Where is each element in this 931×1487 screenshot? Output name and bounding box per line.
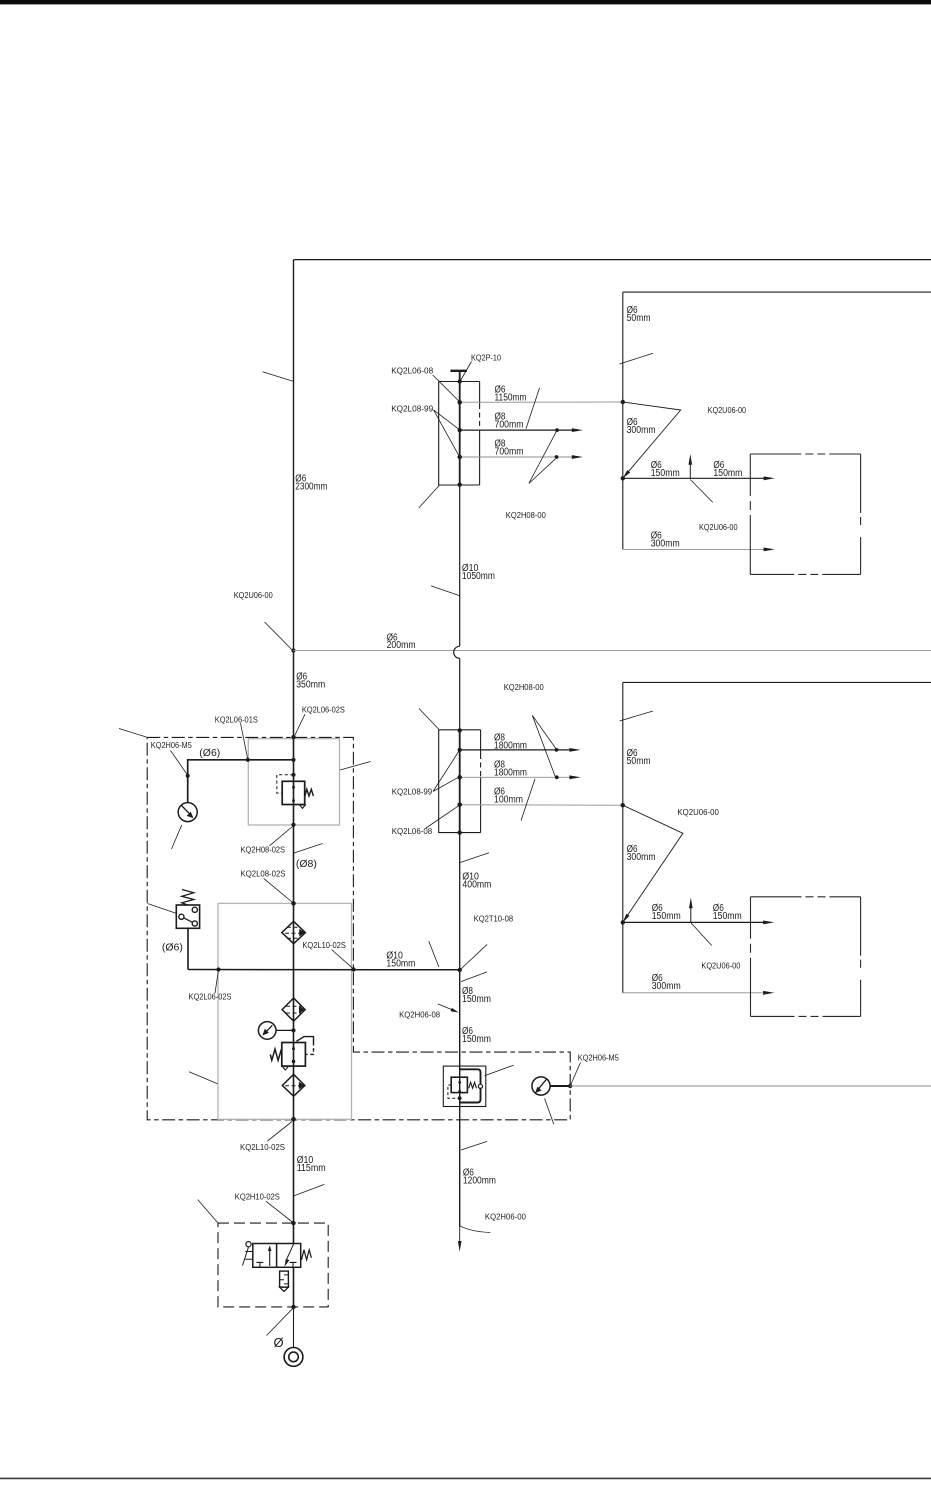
svg-text:KQ2L08-02S: KQ2L08-02S bbox=[241, 869, 286, 879]
SV1 solenoid symbol bbox=[243, 1242, 253, 1266]
leader triangle KQ2U06-00 (Z2R) bbox=[623, 805, 683, 919]
label Ø6 200mm bbox=[387, 632, 416, 651]
label Ø6 350mm bbox=[296, 672, 325, 691]
label Ø6 100mm bbox=[494, 787, 523, 806]
label Ø6 300mm lower (Z2R) bbox=[652, 973, 681, 992]
regulator R2 spring (left W) bbox=[270, 1049, 281, 1060]
wire: gauge G3 link (thick) bbox=[550, 1085, 570, 1087]
zone 1 top boundary line bbox=[294, 259, 931, 261]
page bottom rule bbox=[0, 1477, 931, 1479]
node: junction left pipe / 200mm line bbox=[291, 648, 295, 652]
svg-text:1150mm: 1150mm bbox=[495, 392, 527, 403]
node dots on manifold U1 bbox=[458, 379, 462, 383]
label Ø6 300mm lower (Z1R) bbox=[651, 531, 680, 550]
regulator R2 relief triangle bbox=[283, 1067, 289, 1071]
label Ø8 1800mm #1 bbox=[494, 732, 527, 751]
leaders KQ2L08-99 bbox=[434, 410, 460, 457]
wire: stem to gauge G1 bbox=[187, 776, 189, 803]
svg-text:150mm: 150mm bbox=[652, 911, 681, 922]
wire: main riser through manifold U1 bbox=[459, 371, 461, 485]
regulator R1 spring (right) bbox=[305, 789, 314, 796]
regulator R1 relief triangle bbox=[300, 805, 306, 809]
wire: drop pipe Ø10 115mm bbox=[293, 1119, 295, 1223]
regulator R2 flow arrow + dot bbox=[292, 1044, 295, 1050]
svg-text:KQ2L06-08: KQ2L06-08 bbox=[391, 366, 433, 376]
label Ø6 300mm (Z1R) bbox=[627, 417, 656, 436]
label Ø6 2300mm bbox=[295, 473, 327, 492]
wire: outlet Ø8 1800mm #2 with arrow (gray) bbox=[460, 776, 570, 778]
svg-text:KQ2U06-00: KQ2U06-00 bbox=[234, 590, 273, 600]
label Ø6 150mm (riser) bbox=[462, 1026, 491, 1045]
svg-text:KQ2U06-00: KQ2U06-00 bbox=[677, 807, 719, 817]
leader KQ2L06-01S bbox=[241, 723, 248, 759]
valve KQ2H06-M5 outer square bbox=[443, 1066, 486, 1106]
svg-text:(Ø8): (Ø8) bbox=[296, 859, 317, 870]
SV1 left position: flow arrow bbox=[269, 1249, 271, 1267]
label Ø10 400mm bbox=[462, 871, 491, 890]
svg-text:KQ2H08-00: KQ2H08-00 bbox=[504, 682, 544, 692]
svg-text:150mm: 150mm bbox=[651, 468, 680, 479]
pressure gauge G2 bbox=[258, 1022, 293, 1040]
svg-text:400mm: 400mm bbox=[462, 879, 491, 890]
wire: riser Ø10 1050mm bbox=[459, 485, 461, 646]
leader KQ2H06-00 bbox=[460, 1226, 490, 1233]
svg-text:KQ2H06-00: KQ2H06-00 bbox=[485, 1211, 526, 1221]
filter F1 (air filter) bbox=[282, 921, 306, 943]
leader Ø10 1050mm bbox=[431, 586, 460, 596]
svg-text:KQ2H06-M5: KQ2H06-M5 bbox=[151, 740, 192, 750]
pressure gauge G3 bbox=[532, 1077, 550, 1095]
leader across Z1R edge bbox=[620, 353, 654, 364]
filter F3 (micro mist separator) bbox=[282, 1074, 305, 1096]
gray subgroup box 1 (regulator unit) bbox=[248, 739, 339, 825]
regulator R1 body bbox=[282, 781, 305, 804]
node: tee junction bbox=[458, 968, 462, 972]
leader KQ2H06-M5 bbox=[170, 750, 187, 775]
svg-text:300mm: 300mm bbox=[651, 538, 680, 549]
leader at (Ø8) bbox=[294, 844, 323, 854]
wire: outlet Ø8 700mm #2 with arrow bbox=[460, 456, 573, 458]
wire: pipe Ø6 350mm (left vertical lower) bbox=[293, 651, 295, 738]
valve port circle bbox=[478, 1084, 482, 1088]
wire: riser Ø10 400mm bbox=[459, 833, 461, 970]
valve bypass loop (thick) bbox=[460, 1069, 481, 1102]
svg-text:200mm: 200mm bbox=[387, 640, 416, 651]
gray subgroup box 2 (filter unit) bbox=[218, 903, 352, 1119]
label Ø10 115mm bbox=[297, 1155, 326, 1174]
label Ø10 1050mm bbox=[462, 563, 495, 582]
leader to manifold U2 top corner bbox=[419, 709, 439, 730]
svg-text:700mm: 700mm bbox=[495, 446, 524, 457]
phantom box Z2R (equipment outline) bbox=[751, 897, 861, 1017]
leader to enclosure corner bbox=[119, 729, 147, 738]
svg-text:100mm: 100mm bbox=[494, 795, 523, 806]
leader KQ2P-10 bbox=[461, 362, 472, 381]
leader to valve enclosure corner bbox=[198, 1200, 218, 1223]
V leaders to outlet arrows bbox=[529, 430, 557, 483]
svg-text:150mm: 150mm bbox=[462, 994, 491, 1005]
node dots on manifold U2 bbox=[458, 728, 462, 732]
wire: gauge branch L-line thick bbox=[188, 760, 294, 776]
leaders at tee junction bbox=[429, 941, 487, 1010]
leader Ø10 115mm bbox=[294, 1184, 325, 1196]
svg-text:1050mm: 1050mm bbox=[462, 571, 495, 582]
svg-text:300mm: 300mm bbox=[627, 852, 656, 863]
label Ø6 300mm (Z2R) bbox=[627, 844, 656, 863]
up arrow on Z2R branch 1 bbox=[690, 903, 692, 923]
zone2 right distribution box left edge bbox=[622, 682, 624, 992]
leader KQ2L10-02S bottom bbox=[268, 1122, 293, 1142]
svg-text:300mm: 300mm bbox=[627, 425, 656, 436]
pipe hop over 200mm line bbox=[454, 646, 460, 658]
label Ø6 150mm left (Z2R) bbox=[652, 903, 681, 922]
svg-text:2300mm: 2300mm bbox=[295, 481, 327, 492]
wire: Ø10 150mm horizontal run bbox=[188, 969, 460, 971]
wire: outlet Ø6 1150mm (gray) bbox=[460, 401, 623, 403]
leaders KQ2L08-99 (zone2) bbox=[433, 751, 459, 792]
wire: Z2R branch arrow line 2 (gray) bbox=[623, 992, 764, 994]
svg-text:350mm: 350mm bbox=[296, 680, 325, 691]
leader KQ2H10-02S bbox=[266, 1201, 293, 1222]
node: Z2R inlet junction bbox=[621, 803, 625, 807]
leader KQ2L06-02S mid bbox=[215, 971, 218, 994]
SV1 return spring W bbox=[302, 1250, 312, 1260]
wire: FRL main vertical bbox=[293, 737, 295, 1119]
node: enclosure bottom junction bbox=[291, 1305, 295, 1309]
wire: out of valve bbox=[293, 1267, 295, 1307]
node: FRL inlet dot bbox=[291, 735, 295, 739]
svg-text:KQ2H06-M5: KQ2H06-M5 bbox=[578, 1053, 619, 1063]
svg-text:KQ2H08-02S: KQ2H08-02S bbox=[241, 844, 286, 854]
wire: Z1R branch arrow line 1 bbox=[623, 477, 764, 479]
svg-text:KQ2H06-08: KQ2H06-08 bbox=[399, 1010, 440, 1020]
leader Ø10 400mm bbox=[460, 853, 489, 863]
svg-text:KQ2L10-02S: KQ2L10-02S bbox=[302, 940, 346, 950]
wire: switch stem bbox=[187, 928, 189, 969]
V leaders to outlets (zone2) bbox=[532, 715, 556, 776]
node dots on horizontal run bbox=[216, 967, 220, 971]
leader near 1150mm bbox=[526, 388, 540, 429]
leader KQ2H06-M5 valve box bbox=[571, 1063, 581, 1085]
wire: Z2R branch arrow line 1 bbox=[623, 921, 764, 923]
node: gray box2 top junction bbox=[291, 901, 296, 906]
leader to gray box 1 bbox=[340, 762, 371, 771]
label Ø6 150mm right (Z1R) bbox=[713, 460, 742, 479]
svg-text:KQ2H08-00: KQ2H08-00 bbox=[506, 510, 546, 520]
label Ø6 1200mm bbox=[463, 1168, 496, 1187]
label Ø6 150mm right (Z2R) bbox=[713, 903, 742, 922]
wire: gray line to right edge bbox=[570, 1085, 931, 1087]
svg-text:1800mm: 1800mm bbox=[494, 768, 527, 779]
svg-text:KQ2L08-99: KQ2L08-99 bbox=[392, 786, 433, 796]
leader from gauge G1 bbox=[172, 825, 182, 849]
svg-text:KQ2L06-02S: KQ2L06-02S bbox=[302, 705, 345, 715]
label Ø10 150mm bbox=[386, 950, 415, 969]
leader KQ2L08-02S bbox=[264, 878, 293, 902]
label Ø6 150mm left (Z1R) bbox=[651, 460, 680, 479]
svg-text:50mm: 50mm bbox=[627, 756, 651, 767]
wire: into valve bbox=[293, 1223, 295, 1243]
node: gray box1 bottom junction bbox=[291, 823, 295, 827]
svg-text:KQ2T10-08: KQ2T10-08 bbox=[474, 914, 514, 924]
leader across Z2R edge bbox=[620, 711, 654, 721]
svg-text:150mm: 150mm bbox=[386, 958, 415, 969]
wire: riser continues to lower manifold bbox=[459, 658, 461, 730]
plug KQ2P-10 cap bbox=[450, 370, 467, 372]
leader Ø6 1200mm bbox=[461, 1141, 487, 1150]
leader KQ2L06-08 bbox=[433, 375, 460, 402]
SV1 right position: exhaust diagonal bbox=[286, 1244, 294, 1262]
silencer on exhaust bbox=[280, 1271, 289, 1291]
zone 2 top boundary line bbox=[623, 681, 931, 683]
leader to Ø label bbox=[267, 1308, 294, 1336]
wire: riser through manifold U2 bbox=[459, 730, 461, 832]
leader KQ2H08-02S bbox=[270, 827, 293, 846]
svg-text:150mm: 150mm bbox=[462, 1034, 491, 1045]
leader to manifold U1 bottom corner bbox=[419, 485, 439, 508]
svg-text:KQ2H10-02S: KQ2H10-02S bbox=[235, 1192, 280, 1202]
regulator R1 flow arrows bbox=[292, 783, 295, 788]
label Ø8 150mm bbox=[462, 986, 491, 1005]
leader to supply pipe bbox=[263, 372, 294, 381]
pressure switch PS1 bbox=[176, 890, 199, 929]
label Ø8 700mm #1 bbox=[495, 411, 524, 430]
node: Z1R inlet junction bbox=[621, 400, 625, 404]
valve spring W bbox=[469, 1082, 477, 1088]
leader KQ2L06-02S bbox=[294, 714, 305, 736]
valve pilot dashed bbox=[448, 1085, 460, 1098]
label Ø8 700mm #2 bbox=[495, 438, 524, 457]
node dots on branch bbox=[186, 774, 190, 778]
svg-text:KQ2L10-02S: KQ2L10-02S bbox=[240, 1142, 285, 1152]
leader from gauge G3 bbox=[545, 1098, 554, 1124]
wire: Z1R branch arrow line 2 (gray) bbox=[623, 548, 764, 550]
svg-text:300mm: 300mm bbox=[652, 981, 681, 992]
svg-text:Ø: Ø bbox=[274, 1335, 284, 1350]
label Ø6 50mm (Z1R) bbox=[627, 305, 651, 324]
leader near 100mm bbox=[521, 779, 535, 821]
svg-text:KQ2L08-99: KQ2L08-99 bbox=[391, 403, 433, 413]
leader KQ2L06-08 (zone2) bbox=[426, 805, 459, 828]
svg-text:KQ2U06-00: KQ2U06-00 bbox=[701, 961, 740, 971]
manifold U1 body (upper) bbox=[439, 382, 480, 486]
regulator R1 pilot dashed line bbox=[277, 775, 294, 793]
FRL assembly chain-line enclosure bbox=[147, 737, 570, 1119]
label Ø6 50mm (Z2R) bbox=[627, 748, 651, 767]
leader from valve bbox=[485, 1065, 514, 1076]
wire: outlet Ø6 100mm (gray to Z2R) bbox=[460, 804, 623, 807]
phantom box Z1R (equipment outline) bbox=[750, 454, 860, 574]
wire: gray line Ø6 200mm bbox=[294, 650, 931, 652]
label Ø8 1800mm #2 bbox=[494, 760, 527, 779]
leader KQ2L10-02S bbox=[332, 950, 354, 969]
node: FRL outlet junction bbox=[291, 1117, 296, 1122]
label Ø6 1150mm bbox=[495, 384, 527, 403]
valve flow arrows bbox=[458, 1078, 461, 1083]
pressure gauge G1 bbox=[178, 803, 197, 822]
leader to gray box 2 bbox=[189, 1072, 218, 1084]
regulator R2 pilot hook bbox=[296, 1037, 313, 1042]
wire: outlet Ø8 700mm #1 with arrow bbox=[460, 429, 573, 431]
node: gauge G2 junction bbox=[291, 1028, 295, 1032]
leader from up arrow (Z2R) bbox=[691, 923, 712, 946]
svg-text:KQ2U06-00: KQ2U06-00 bbox=[699, 522, 738, 532]
svg-text:115mm: 115mm bbox=[297, 1163, 326, 1174]
wire: riser Ø8/Ø6 down through valve bbox=[459, 970, 461, 1227]
zone1 right distribution box top edge bbox=[623, 291, 931, 293]
svg-text:(Ø6): (Ø6) bbox=[162, 943, 183, 954]
wire: outlet Ø8 1800mm #1 with arrow bbox=[460, 749, 570, 751]
node dots overdraw (U2) bbox=[458, 775, 462, 779]
wire: tail to port bbox=[293, 1307, 295, 1348]
node: box edge junction bbox=[568, 1084, 572, 1088]
svg-text:150mm: 150mm bbox=[713, 468, 742, 479]
zone1 right distribution box left edge bbox=[622, 292, 624, 549]
wire: main supply pipe Ø6 2300mm (left vertical) bbox=[293, 260, 295, 651]
svg-text:1200mm: 1200mm bbox=[463, 1176, 496, 1187]
leader from up arrow (Z1R) bbox=[690, 480, 713, 503]
regulator R2 body bbox=[282, 1043, 306, 1067]
svg-text:700mm: 700mm bbox=[495, 419, 524, 430]
port double circle bbox=[284, 1348, 303, 1367]
svg-text:50mm: 50mm bbox=[627, 313, 651, 324]
svg-text:(Ø6): (Ø6) bbox=[199, 748, 220, 759]
leader to pressure switch bbox=[148, 904, 177, 914]
valve inner body bbox=[451, 1077, 467, 1092]
svg-text:KQ2P-10: KQ2P-10 bbox=[471, 353, 501, 363]
svg-text:KQ2U06-00: KQ2U06-00 bbox=[708, 405, 747, 415]
svg-text:KQ2L06-01S: KQ2L06-01S bbox=[215, 714, 258, 724]
leader KQ2U06-00 to junction bbox=[265, 622, 293, 650]
svg-text:1800mm: 1800mm bbox=[494, 740, 527, 751]
node: enclosure top junction bbox=[291, 1221, 295, 1225]
svg-text:KQ2L06-02S: KQ2L06-02S bbox=[189, 991, 232, 1001]
manifold U2 body (lower) bbox=[439, 730, 481, 833]
solenoid valve enclosure (dashed box) bbox=[218, 1223, 328, 1307]
SV1 right position: blocked port T bbox=[290, 1262, 297, 1267]
up arrow on Z1R branch 1 bbox=[689, 459, 691, 478]
SV1 left position: blocked port T bbox=[256, 1262, 263, 1267]
filter F2 (mist separator) bbox=[282, 998, 305, 1021]
node dots overdraw (U1) bbox=[458, 400, 462, 404]
solenoid valve SV1 body bbox=[253, 1244, 301, 1268]
leader triangle KQ2U06-00 (Z1R) bbox=[623, 402, 681, 476]
svg-text:150mm: 150mm bbox=[713, 911, 742, 922]
page top border bar bbox=[0, 0, 931, 4]
wire: thin tail with down arrow bbox=[459, 1227, 461, 1242]
